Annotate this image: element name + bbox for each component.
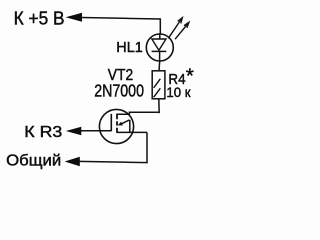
svg-text:К +5 В: К +5 В [14,7,65,28]
wire resistor to drain [158,99,160,113]
LED HL1 triangle [152,39,166,50]
LED HL1 cathode lead [159,52,161,62]
LED HL1 cathode bar [152,50,167,52]
transistor VT2 channel segment bulk [116,121,118,125]
LED HL1 circle [146,34,173,61]
LED light arrow 2 [175,23,188,39]
svg-text:10 к: 10 к [166,84,191,100]
wire top vertical to LED [159,18,161,34]
resistor R4 body [152,71,165,99]
svg-text:HL1: HL1 [116,39,143,56]
wire bottom horizontal [79,161,148,162]
transistor VT2 circle [99,109,133,143]
wire top horizontal [82,18,161,20]
wire LED to resistor [158,61,161,71]
transistor VT2 gate bar [110,114,112,131]
wire gate [81,130,112,132]
transistor VT2 source stub [117,131,147,133]
LED light arrow 1 [168,18,182,38]
transistor VT2 bulk arrow [120,120,129,125]
transistor VT2 channel segment source [116,128,118,133]
svg-text:2N7000: 2N7000 [94,81,144,101]
svg-text:Общий: Общий [6,152,61,169]
resistor R4 power mark 2 [154,88,161,97]
LED HL1 anode lead [159,34,161,40]
node Obshchiy arrow [65,157,80,166]
transistor VT2 bulk connector [129,120,131,133]
resistor R4 power mark 1 [154,79,161,88]
transistor VT2 channel segment drain [116,114,118,120]
node K +5 V arrow [66,13,82,22]
node K R3 arrow [66,127,82,136]
wire source down [146,132,148,162]
svg-text:К R3: К R3 [24,124,62,141]
wire drain horizontal [117,112,159,114]
